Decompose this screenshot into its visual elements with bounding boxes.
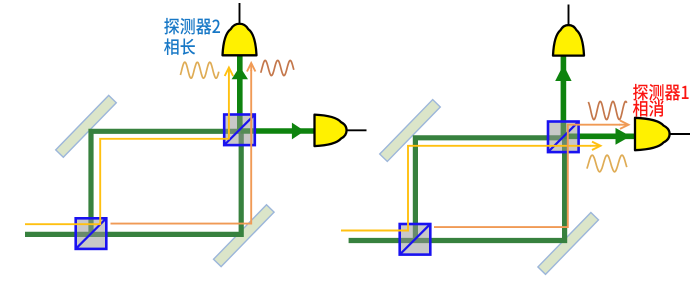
photon arrow (yellow) up to detector 2 (left) xyxy=(225,68,233,140)
beam: input + bottom arm (left diagram) xyxy=(25,129,241,235)
detector D1 (right diagram, right) xyxy=(635,118,690,150)
label: constructive (blue) line 2 xyxy=(164,38,195,55)
detector D1 (left diagram, right) xyxy=(315,115,367,147)
beam: output up to detector 2 (left diagram) xyxy=(237,56,243,130)
label: detector 1 (red) line 1 xyxy=(633,84,689,101)
label: destructive (red) line 2 xyxy=(633,100,664,117)
photon arrow (orange) up to detector 2 (left) xyxy=(247,63,255,72)
beam splitter BS1 (left diagram, bottom-left) xyxy=(76,218,107,249)
beam: left vertical + top arm (left diagram) xyxy=(91,131,240,237)
beam: output up to top detector (right diagram) xyxy=(561,57,567,137)
beam: output right to detector 1 (right diagram) xyxy=(564,134,636,140)
beam: input + bottom arm (right diagram) xyxy=(349,135,565,241)
wave packet (gold) left of detector 2 (left diagram) xyxy=(180,62,218,78)
mirror M1 (left diagram, top-left) xyxy=(56,95,117,157)
wave packet (gold) below beam (right diagram) xyxy=(587,155,627,172)
photon path (orange) bottom->up->right (right diagram) xyxy=(434,125,620,227)
beam: output right to detector 1 (left diagram) xyxy=(241,128,316,134)
photon arrow (yellow) right (right diagram) xyxy=(590,142,601,150)
beam splitter BS2 (right diagram, top-right) xyxy=(548,122,579,153)
top detector (right diagram) xyxy=(553,5,584,56)
mirror M1 (right diagram, top-left) xyxy=(380,100,441,162)
label: detector 2 (blue) line 1 xyxy=(164,18,220,35)
photon path (orange) bottom->up->detector2 (left diagram) xyxy=(111,70,252,224)
mirror M2 (right diagram, bottom-right) xyxy=(538,212,599,274)
photon path (yellow) input->up->right (right diagram) xyxy=(341,146,591,231)
wave packet (orange) right of detector 2 (left diagram) xyxy=(261,60,294,75)
beam splitter BS1 (right diagram, bottom-left) xyxy=(400,224,431,255)
photon arrow (orange) right (right diagram) xyxy=(619,121,629,129)
mirror M2 (left diagram, bottom-right) xyxy=(214,205,275,267)
photon path (yellow) input->up->top->detector2 (left diagram) xyxy=(25,139,229,224)
beam splitter BS2 (left diagram, top-right) xyxy=(224,115,255,146)
detector D2 (left diagram, top) xyxy=(223,3,257,55)
beam: left vertical + top arm (right diagram) xyxy=(415,138,563,243)
wave packet (orange) above beam (right diagram) xyxy=(588,101,627,119)
